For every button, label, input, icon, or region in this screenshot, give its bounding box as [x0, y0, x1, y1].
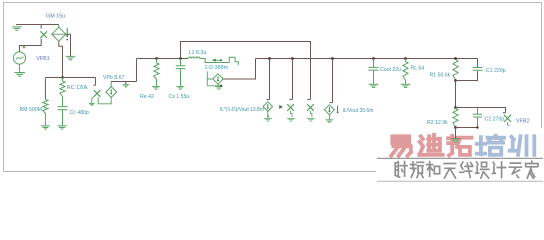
- svg-text:GM 15u: GM 15u: [46, 14, 65, 20]
- svg-text:C2 270p: C2 270p: [485, 116, 505, 122]
- gm-source GM diamond: [52, 27, 66, 41]
- svg-text:VFB2: VFB2: [516, 119, 529, 125]
- node PWM diamond bottom: [220, 85, 222, 87]
- wire PWM output up to bus: [223, 59, 255, 80]
- node COMP junction: [61, 76, 64, 79]
- svg-text:RC 120k: RC 120k: [67, 85, 88, 91]
- node bus/RL: [404, 57, 407, 60]
- resistor RC 120k: [60, 81, 65, 97]
- resistor RM 500M: [43, 100, 48, 114]
- ground (below Cc): [57, 126, 66, 129]
- dependent source diamond (PWM switch): [213, 74, 223, 84]
- node FB divider mid: [454, 106, 457, 109]
- stem GM top: [58, 25, 60, 28]
- wire GM right to ground: [66, 34, 71, 56]
- resistor RL 64: [403, 62, 408, 81]
- arrow annotation left of X3: [279, 105, 283, 109]
- ground (right of GM): [66, 56, 76, 59]
- arrow inside I1: [267, 104, 269, 108]
- capacitor C1 220p: [473, 68, 483, 71]
- current source I1 diamond: [263, 102, 273, 112]
- node Re top: [155, 57, 158, 60]
- transformer winding path (1-D): [200, 57, 238, 65]
- plus mark: [23, 46, 26, 49]
- arrow inside VPb diamond: [110, 89, 112, 93]
- ground (below Cout): [369, 84, 379, 87]
- svg-text:C1 220p: C1 220p: [486, 68, 506, 74]
- node bus/Cout: [372, 57, 375, 60]
- current arrow annotation (GM): [66, 28, 68, 36]
- wire drop to source I1: [267, 59, 270, 100]
- inductor L1: [188, 57, 200, 58]
- svg-text:VPb 8.67: VPb 8.67: [103, 75, 124, 81]
- ground (below RL): [401, 84, 411, 87]
- svg-text:VFB1: VFB1: [36, 56, 49, 62]
- wire comp node to port X2: [93, 78, 95, 86]
- svg-text:1-D 388m: 1-D 388m: [205, 65, 229, 71]
- small ground below port X2: [92, 96, 95, 103]
- ground (below Cs): [176, 86, 184, 89]
- wire VPb bottom loop to port X2: [98, 97, 111, 104]
- wire PWM diamond left loop: [207, 71, 221, 85]
- ground (below X4): [307, 118, 315, 121]
- wire comp node horizontal: [45, 77, 95, 79]
- current source I2 diamond: [324, 105, 334, 115]
- ground (below I1): [264, 118, 272, 121]
- wire output bus: [256, 58, 478, 60]
- wire comp node to RM: [44, 78, 46, 100]
- wire up-leg to mid bus: [136, 59, 138, 82]
- wire R1 bottom to R2 top: [455, 81, 457, 108]
- wire C1 branch: [456, 59, 478, 81]
- ground (small, near VPb): [122, 85, 129, 87]
- svg-text:RL 64: RL 64: [411, 66, 425, 72]
- svg-text:IL/Vout 35.6m: IL/Vout 35.6m: [343, 108, 374, 114]
- watermark slogan 射频和天线设计专家: [395, 162, 407, 178]
- svg-text:Cout 22u: Cout 22u: [380, 67, 401, 73]
- port X3 (x-symbol): [287, 104, 294, 111]
- capacitor C2 270p: [473, 108, 482, 128]
- port X1 (x-symbol): [40, 31, 47, 38]
- source VFB1: [13, 52, 25, 64]
- capacitor Cout 22u: [369, 59, 379, 84]
- node bus/X3: [291, 57, 294, 60]
- ground (below VFB1): [14, 73, 24, 77]
- node bus/I1: [268, 57, 271, 60]
- node Vout/R1 top: [454, 57, 457, 60]
- wire hook to port X1 top pin: [40, 25, 42, 29]
- svg-text:Cc 480p: Cc 480p: [70, 110, 89, 116]
- wire C2 top / to port VFB2: [456, 108, 506, 113]
- ground (below X3): [287, 118, 295, 121]
- wire drop to source I2: [329, 59, 332, 103]
- arrow inside PWM diamond: [217, 76, 219, 80]
- resistor Re 42: [154, 63, 159, 80]
- resistor R1 50.6k: [453, 60, 458, 80]
- svg-text:IL*(1-D)/Vout 13.8m: IL*(1-D)/Vout 13.8m: [220, 107, 264, 113]
- svg-text:R1 50.6k: R1 50.6k: [430, 73, 451, 79]
- wire C2 bottom: [456, 127, 478, 129]
- wire hook to port X4: [307, 98, 310, 100]
- svg-text:RM 500M: RM 500M: [20, 107, 43, 113]
- ground (below PWM diamond): [215, 87, 223, 90]
- wire VFB1 to port X1 bottom pin: [20, 39, 42, 52]
- ground (below Re): [152, 86, 160, 89]
- wire top-left ground to GM input: [16, 24, 59, 26]
- wire VPb to switch node: [111, 81, 136, 83]
- svg-text:Re 42: Re 42: [140, 94, 154, 100]
- current arrow annotation (I2): [337, 106, 339, 112]
- svg-text:R2 12.9k: R2 12.9k: [427, 120, 448, 126]
- watermark background: [376, 128, 544, 184]
- capacitor Cc 480p: [58, 97, 68, 126]
- ground (top-left): [12, 27, 21, 30]
- node C2 bottom: [476, 126, 478, 128]
- wire tap to small ground: [125, 82, 127, 85]
- vcvs VPb diamond: [106, 87, 117, 98]
- svg-text:L1 6.3u: L1 6.3u: [189, 50, 207, 56]
- port X2 (x-symbol): [94, 90, 101, 97]
- stem VFB1 to ground: [19, 64, 21, 72]
- wire mid bus: [137, 58, 189, 60]
- port VFB2 (x-symbol): [504, 115, 511, 122]
- stem VPb top: [110, 82, 112, 87]
- arrow inside I2: [328, 107, 330, 111]
- wire GM output down to comp node: [59, 41, 63, 77]
- watermark bottom line: [377, 180, 543, 182]
- node R2 bottom: [454, 126, 457, 129]
- watermark underline: [377, 157, 543, 159]
- watermark logo text 易迪拓培训: [391, 136, 411, 155]
- port X4 (x-symbol): [307, 104, 314, 111]
- ground (below RM): [41, 126, 50, 129]
- current arrow annotation over winding: [212, 59, 221, 61]
- ground (below R2): [451, 139, 461, 142]
- ground (below I2): [326, 120, 334, 123]
- hook below port VFB2: [508, 122, 510, 125]
- wire R2 bottom to ground: [455, 128, 457, 139]
- node Cs top / bypass tap: [179, 57, 182, 60]
- resistor R2 12.9k: [453, 108, 458, 126]
- node bus/I2: [331, 57, 334, 60]
- wire top bypass to port X4: [181, 42, 311, 100]
- svg-text:Cs 1.55u: Cs 1.55u: [169, 94, 190, 100]
- node R1 bottom: [454, 79, 457, 82]
- schematic border frame: [4, 3, 542, 172]
- wire drop to port X3: [289, 59, 292, 100]
- capacitor Cs 1.55u: [176, 59, 186, 87]
